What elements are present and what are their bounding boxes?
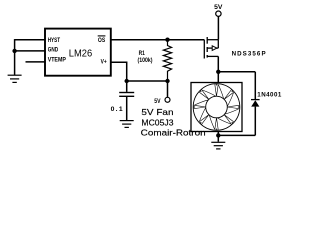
- wire drain to diode cathode: [218, 71, 255, 73]
- svg-text:5V: 5V: [214, 4, 223, 11]
- svg-text:HYST: HYST: [48, 37, 61, 44]
- node junction fan/diode/ground: [216, 133, 220, 137]
- svg-text:NDS356P: NDS356P: [232, 51, 266, 58]
- svg-text:5V Fan: 5V Fan: [141, 107, 173, 117]
- node junction V+/C1: [125, 79, 129, 83]
- node junction rail/GND: [12, 49, 16, 53]
- svg-text:0.1: 0.1: [111, 106, 123, 113]
- wire drain down: [217, 56, 219, 71]
- wire OS output to gate: [111, 39, 205, 41]
- pin label VTEMP: [48, 57, 66, 64]
- label (100k): [138, 57, 153, 64]
- wire fan bottom to diode anode: [218, 134, 255, 136]
- ground GND2 middle: [120, 121, 134, 128]
- svg-text:LM26: LM26: [69, 48, 93, 60]
- diode D1 1N4001: [251, 72, 260, 136]
- node junction drain/diode/fan: [216, 70, 220, 74]
- label 0.1: [111, 106, 123, 113]
- label R1: [139, 50, 146, 57]
- op-amp U1 LM26 body: [45, 29, 111, 76]
- ground GND3 fan: [211, 142, 225, 149]
- transistor Q1 NDS356P: [204, 37, 218, 59]
- svg-text:MC05J3: MC05J3: [141, 117, 173, 127]
- svg-text:R1: R1: [139, 50, 146, 57]
- resistor R1: [163, 40, 171, 81]
- svg-text:Comair-Rotron: Comair-Rotron: [141, 128, 206, 138]
- wire V+ pin to rail: [111, 62, 127, 81]
- svg-text:(100k): (100k): [138, 57, 153, 64]
- pin label GND: [48, 47, 59, 54]
- capacitor C1: [119, 81, 134, 120]
- wire fan top: [217, 72, 219, 83]
- svg-text:V+: V+: [101, 58, 107, 65]
- label NDS356P: [232, 51, 266, 58]
- svg-text:GND: GND: [48, 47, 59, 54]
- wire HYST pin to rail: [15, 39, 45, 41]
- wire to ground: [217, 135, 219, 141]
- label MC05J3: [141, 117, 173, 127]
- wire VTEMP stub: [26, 61, 45, 63]
- ground GND1 left: [8, 75, 22, 82]
- node junction R1 bottom: [165, 79, 169, 83]
- label 1N4001: [257, 92, 282, 99]
- fan M1 body: [191, 83, 242, 132]
- label 5V Fan: [141, 107, 173, 117]
- wire fan bottom: [217, 132, 219, 136]
- wire V+ rail: [127, 80, 168, 82]
- power 5V terminal bottom: [154, 81, 170, 105]
- pin label V+: [101, 58, 107, 65]
- wire GND pin to rail: [15, 50, 45, 52]
- fan M1 rotor icon: [193, 84, 240, 131]
- svg-text:5V: 5V: [154, 98, 161, 105]
- node junction OS/R1: [165, 38, 169, 42]
- label Comair-Rotron: [141, 128, 206, 138]
- label LM26: [69, 48, 93, 60]
- svg-text:VTEMP: VTEMP: [48, 57, 66, 64]
- pin label OS (active low): [98, 36, 106, 44]
- svg-text:OS: OS: [98, 37, 105, 44]
- pin label HYST: [48, 37, 61, 44]
- svg-text:1N4001: 1N4001: [257, 92, 282, 99]
- power 5V terminal top: [214, 4, 223, 40]
- wire left rail: [14, 39, 16, 75]
